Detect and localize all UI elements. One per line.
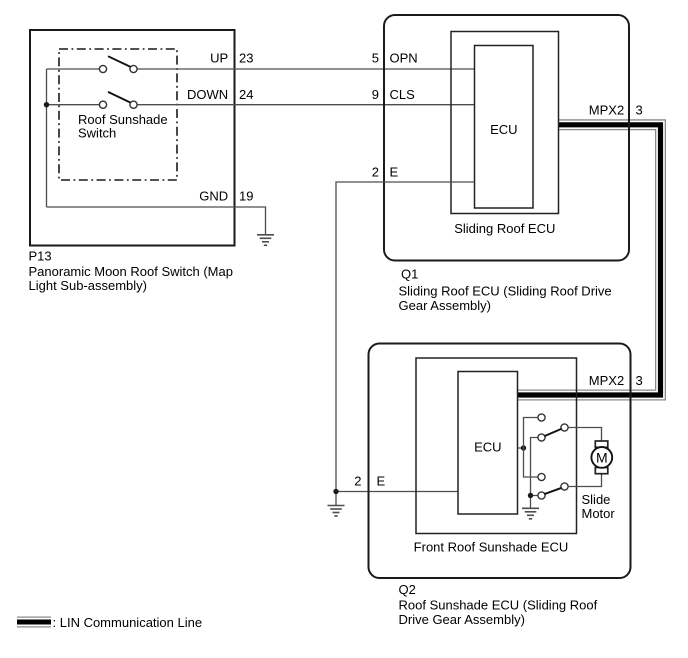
svg-text:GND: GND (199, 189, 228, 204)
connector Q1 outline (384, 15, 629, 261)
connector P13 outline (30, 30, 235, 246)
switch SW boundary (Roof Sunshade Switch dash-dot box) (59, 49, 177, 180)
svg-text:CLS: CLS (390, 87, 416, 102)
svg-text:19: 19 (239, 189, 253, 204)
svg-text:MPX2: MPX2 (589, 103, 624, 118)
svg-text:OPN: OPN (390, 51, 418, 66)
svg-text:ECU: ECU (474, 439, 501, 454)
junction E net / ground (333, 489, 338, 494)
svg-text:Sliding Roof ECU: Sliding Roof ECU (454, 221, 555, 236)
ground G3 (Q2 relay) (522, 508, 539, 519)
svg-text:MPX2: MPX2 (589, 373, 624, 388)
wire UP net (P13 pin 23 to Q1 pin 5) (47, 68, 475, 70)
switch SW1 UP contacts (99, 65, 106, 72)
block Front Roof Sunshade ECU box (416, 358, 577, 534)
svg-text:Drive Gear Assembly): Drive Gear Assembly) (399, 612, 525, 627)
svg-text:Sliding Roof ECU (Sliding Roof: Sliding Roof ECU (Sliding Roof Drive (399, 284, 612, 299)
svg-text:3: 3 (636, 373, 643, 388)
svg-text:5: 5 (372, 51, 379, 66)
svg-text:: LIN Communication Line: : LIN Communication Line (53, 615, 203, 630)
svg-text:Gear Assembly): Gear Assembly) (399, 298, 491, 313)
svg-text:Roof Sunshade ECU (Sliding Roo: Roof Sunshade ECU (Sliding Roof (399, 597, 598, 612)
svg-text:ECU: ECU (490, 122, 517, 137)
wire switch common bus (46, 69, 48, 207)
block Sliding Roof ECU box (451, 32, 559, 214)
switch SW3 contacts (upper changeover) (538, 414, 545, 421)
switch SW1 blade (108, 56, 130, 67)
junction ECU tap (521, 445, 526, 450)
svg-text:E: E (390, 165, 399, 180)
junction relay bus 2 / ground (528, 493, 533, 498)
wire E net (Q1 pin 2 / Q2 pin 2 / ground) (336, 182, 475, 506)
wire motor feed bottom (568, 474, 601, 487)
switch SW2 blade (108, 92, 130, 103)
switch SW4 blade (544, 488, 561, 494)
svg-text:M: M (596, 449, 608, 465)
wire motor feed top (568, 428, 601, 442)
svg-text:2: 2 (354, 473, 361, 488)
svg-text:2: 2 (372, 165, 379, 180)
switch SW3 blade (544, 429, 561, 436)
svg-text:P13: P13 (29, 248, 52, 263)
wire GND net (P13 pin 19 to ground) (47, 207, 266, 235)
svg-text:Front Roof Sunshade ECU: Front Roof Sunshade ECU (414, 540, 569, 555)
svg-text:DOWN: DOWN (187, 87, 228, 102)
block ECU (Q1) (475, 46, 534, 209)
switch SW2 DOWN contacts (99, 101, 106, 108)
wire relay bus 2 (to ground) (531, 438, 538, 509)
svg-text:Roof Sunshade: Roof Sunshade (78, 112, 168, 127)
wire MPX2 LIN communication line (Q1 pin 3 to Q2 pin 3) (518, 125, 661, 395)
svg-text:23: 23 (239, 51, 253, 66)
svg-text:3: 3 (636, 103, 643, 118)
svg-text:Switch: Switch (78, 126, 116, 141)
svg-text:Q1: Q1 (401, 267, 418, 282)
switch SW4 contacts (lower changeover) (538, 473, 545, 480)
svg-text:Light Sub-assembly): Light Sub-assembly) (29, 278, 148, 293)
svg-text:Slide: Slide (582, 492, 611, 507)
legend LIN line sample (17, 617, 51, 628)
wire DOWN net (P13 pin 24 to Q1 pin 9) (47, 104, 475, 106)
svg-text:UP: UP (210, 51, 228, 66)
connector Q2 outline (369, 344, 631, 579)
ground G1 (P13 GND) (257, 235, 274, 246)
svg-text:E: E (377, 473, 386, 488)
ground G2 (E net) (328, 506, 345, 517)
svg-text:9: 9 (372, 87, 379, 102)
block ECU (Q2) (458, 372, 518, 515)
svg-text:Motor: Motor (582, 506, 616, 521)
wire relay bus 1 (524, 418, 538, 478)
junction bus/DOWN (44, 102, 49, 107)
wire ECU to relay common (518, 447, 524, 449)
svg-text:24: 24 (239, 87, 253, 102)
motor M1 slide motor (591, 441, 612, 474)
svg-text:Q2: Q2 (399, 582, 416, 597)
svg-text:Panoramic Moon Roof Switch (Ma: Panoramic Moon Roof Switch (Map (29, 264, 233, 279)
